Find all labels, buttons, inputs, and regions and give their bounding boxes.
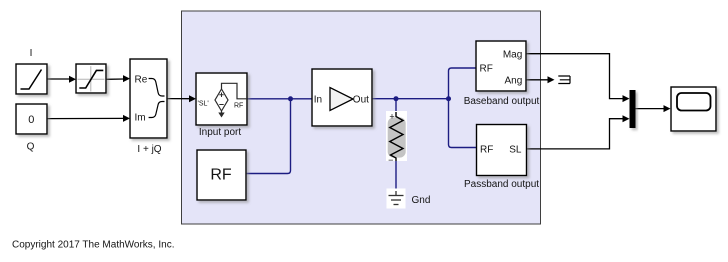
- svg-text:+: +: [389, 111, 394, 121]
- svg-text:Out: Out: [353, 94, 369, 105]
- svg-text:In: In: [314, 94, 322, 105]
- svg-text:RF: RF: [210, 167, 232, 184]
- svg-text:Re: Re: [135, 74, 148, 85]
- svg-text:SL: SL: [509, 145, 522, 156]
- svg-text:'SL': 'SL': [198, 101, 209, 108]
- svg-text:Q: Q: [27, 142, 35, 153]
- svg-text:RF: RF: [480, 145, 493, 156]
- svg-text:Baseband output: Baseband output: [464, 96, 540, 107]
- svg-text:Passband output: Passband output: [464, 179, 539, 190]
- svg-text:I: I: [30, 48, 33, 59]
- svg-text:Gnd: Gnd: [412, 195, 431, 206]
- svg-text:Input port: Input port: [199, 127, 241, 138]
- svg-text:−: −: [388, 155, 393, 165]
- svg-text:0: 0: [28, 114, 34, 126]
- svg-text:RF: RF: [234, 102, 243, 109]
- svg-text:Copyright 2017 The MathWorks,: Copyright 2017 The MathWorks, Inc.: [12, 240, 175, 251]
- svg-text:RF: RF: [480, 64, 493, 75]
- svg-text:Mag: Mag: [503, 49, 522, 60]
- svg-text:Ang: Ang: [505, 75, 523, 86]
- svg-text:I + jQ: I + jQ: [137, 144, 161, 155]
- svg-text:Im: Im: [135, 112, 146, 123]
